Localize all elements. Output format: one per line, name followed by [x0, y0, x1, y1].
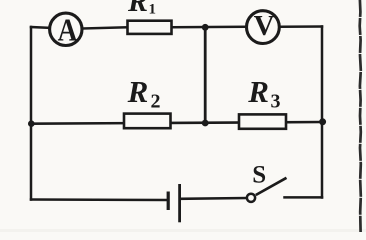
svg-text:R: R: [247, 74, 269, 109]
svg-text:R: R: [127, 74, 149, 109]
svg-text:2: 2: [151, 90, 161, 112]
svg-text:S: S: [252, 162, 266, 189]
svg-text:V: V: [254, 10, 275, 42]
svg-text:R: R: [127, 0, 148, 18]
svg-text:3: 3: [271, 91, 281, 113]
svg-text:1: 1: [149, 1, 157, 17]
svg-text:A: A: [58, 12, 78, 48]
